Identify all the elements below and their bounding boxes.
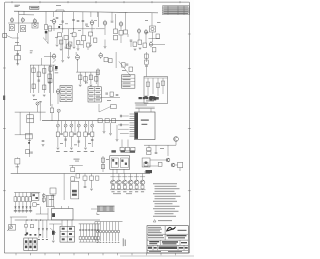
relay box row	[120, 147, 135, 151]
mains rail	[15, 219, 100, 221]
tube V5A	[144, 29, 147, 35]
label	[60, 142, 63, 145]
wire grid bus	[8, 22, 39, 24]
wire	[71, 220, 73, 226]
sheet background	[0, 0, 194, 259]
title row2 right cell	[164, 234, 166, 240]
resistor R37	[32, 84, 35, 89]
label	[78, 29, 81, 32]
wire	[125, 12, 127, 30]
label text	[39, 101, 42, 104]
label	[122, 69, 126, 72]
fuse dark dot	[26, 232, 28, 234]
wire	[175, 164, 178, 166]
title row2 left text	[148, 235, 164, 238]
wire Q1 collector	[112, 174, 114, 180]
wire	[72, 165, 74, 167]
emitter resistor RE5	[135, 186, 138, 189]
wire stage2 drop f	[97, 12, 99, 17]
label	[74, 144, 77, 147]
resistor R70	[178, 162, 183, 167]
wire	[79, 240, 81, 243]
potentiometer P5	[77, 124, 80, 127]
wire drop x30.5	[30, 65, 32, 93]
ground	[60, 49, 63, 51]
wire	[112, 233, 114, 242]
sheet note text top-left	[15, 4, 21, 7]
wire	[112, 188, 114, 191]
wire	[51, 104, 53, 108]
diode D12 dark	[52, 231, 55, 235]
resistor R11	[57, 33, 61, 37]
wire	[78, 127, 80, 132]
label	[85, 82, 88, 85]
resistor R19	[77, 41, 80, 45]
wire	[116, 169, 118, 173]
drawing number label box	[30, 6, 39, 9]
T2 dark mark	[52, 213, 55, 217]
fuse chain F1	[24, 225, 27, 228]
wire	[98, 12, 100, 27]
T1 right winding	[121, 158, 129, 168]
pin mark	[118, 241, 120, 244]
chart box 1 text	[61, 87, 71, 100]
resistor R43	[89, 75, 92, 80]
cap C9a	[56, 18, 59, 19]
wire stage2 drop a	[52, 12, 54, 17]
switch grid top bus	[14, 192, 40, 194]
diode D2	[18, 207, 20, 209]
bias diode LED3	[102, 230, 105, 233]
label	[28, 139, 31, 142]
U1 label text	[141, 120, 149, 125]
resistor R46	[109, 59, 113, 63]
label	[86, 25, 89, 28]
ground	[52, 241, 55, 243]
bias diode LED6	[111, 230, 114, 233]
wire cap2 lead	[82, 224, 84, 237]
cap C23	[78, 141, 81, 142]
ground	[67, 57, 70, 59]
U1 pin stubs	[130, 114, 135, 136]
small cluster right of switches	[33, 203, 36, 207]
module text	[123, 76, 131, 87]
page edge shadow bottom right	[120, 255, 194, 257]
cap C19	[145, 66, 148, 67]
tube V3B	[103, 20, 107, 26]
warning triangle note	[153, 220, 156, 222]
cap C23b	[74, 134, 77, 135]
resistor R62	[50, 108, 53, 113]
wire output feed	[144, 144, 176, 146]
resistor R63	[98, 119, 102, 123]
emitter resistor RE4	[129, 186, 132, 189]
wire	[106, 233, 108, 242]
wire	[65, 127, 67, 132]
vertical label text	[123, 238, 126, 246]
resistor R20	[114, 29, 118, 34]
resistor R42	[84, 77, 87, 82]
wire sw5	[29, 193, 31, 197]
title block inner bottom line	[147, 249, 188, 251]
wire pot6 stem	[91, 121, 93, 124]
wire	[60, 40, 62, 48]
wire	[112, 169, 114, 173]
label	[16, 166, 20, 169]
filter cap C34	[88, 230, 90, 231]
B+ supply rail top	[14, 10, 100, 13]
title block divider vertical top	[164, 226, 166, 235]
resistor R47	[122, 63, 126, 67]
cap C18	[116, 95, 119, 96]
wire V1 plate drop	[18, 11, 20, 33]
filter cap C37	[97, 230, 99, 231]
wire drop 80.2	[79, 72, 81, 84]
wire	[85, 137, 87, 147]
wire	[45, 33, 47, 40]
driver cluster boxes	[71, 168, 80, 182]
cap C17	[105, 93, 108, 94]
wire stage2 drop e	[90, 12, 92, 17]
wire	[130, 41, 132, 47]
mark	[37, 203, 40, 206]
wire	[47, 208, 49, 220]
wire Q2 collector	[118, 174, 120, 180]
impedance selector box	[142, 158, 150, 167]
revision table frame	[163, 6, 190, 15]
power entry dark marks	[25, 240, 36, 248]
wire ps drop 1	[38, 220, 40, 228]
emitter resistor RE3	[123, 186, 126, 189]
resistor R51	[145, 54, 149, 58]
switch contact box SW5	[29, 197, 32, 202]
diode D4	[26, 207, 28, 209]
wire	[87, 47, 89, 50]
title block divider h2	[147, 239, 188, 241]
cap C24b	[88, 134, 91, 135]
diode D1	[15, 207, 17, 209]
wire	[118, 188, 120, 191]
wire	[138, 33, 140, 40]
wire	[146, 67, 148, 77]
wire	[65, 40, 67, 47]
title block top-left text lines	[148, 227, 162, 233]
resistor R21	[119, 31, 123, 36]
power device Q2	[117, 180, 122, 185]
wire	[136, 188, 138, 191]
resistor R60	[84, 132, 87, 137]
wire	[14, 208, 16, 213]
cap C7	[82, 21, 85, 22]
resistor R71b	[101, 165, 104, 169]
ground	[104, 47, 107, 49]
ground	[103, 132, 106, 134]
wire	[70, 137, 72, 147]
wire into strip	[91, 208, 97, 210]
wire	[110, 123, 112, 133]
wire cap5 lead	[91, 224, 93, 237]
wire	[91, 174, 93, 177]
wire	[69, 164, 82, 166]
label	[157, 21, 161, 24]
LED chain	[43, 193, 45, 203]
power device Q1	[111, 180, 116, 185]
wire sw1	[14, 193, 16, 197]
tube V6A	[52, 53, 56, 59]
wire	[19, 112, 21, 135]
bias diode LED2	[99, 230, 102, 233]
bottom border zone ticks	[16, 253, 176, 255]
wire	[26, 202, 28, 207]
emitter resistor RE1	[112, 186, 115, 189]
main bus line mid	[42, 120, 135, 122]
resistor R55	[27, 119, 34, 123]
label text	[33, 98, 37, 101]
sub-circuit box inner top line	[144, 77, 168, 79]
extra stem b	[74, 121, 76, 133]
wire	[146, 52, 148, 62]
decouple box	[15, 56, 21, 60]
title block outer frame	[147, 226, 188, 253]
wire drop 85.5	[85, 72, 87, 84]
resistor R71a	[101, 158, 104, 162]
cap body C34	[88, 237, 90, 240]
wire Q3 collector	[124, 174, 126, 180]
power transformer box T2	[52, 209, 74, 220]
power device Q6	[140, 180, 145, 185]
wire	[17, 33, 19, 46]
resistor R19b	[87, 43, 90, 47]
wire	[115, 233, 117, 242]
wire	[77, 60, 79, 73]
speaker jacks	[144, 162, 148, 166]
cap C24	[91, 140, 94, 141]
notes text block	[153, 183, 181, 216]
output jack J2	[158, 162, 162, 166]
switch contact box SW2	[18, 197, 21, 202]
wire to V6A	[44, 55, 52, 57]
cap C27	[120, 124, 121, 127]
wire	[78, 137, 80, 147]
pin mark	[103, 241, 105, 244]
sub-circuit box outline	[144, 77, 168, 104]
signature date text	[178, 230, 187, 231]
tube V3A	[90, 20, 94, 26]
ground	[73, 47, 76, 49]
wire	[97, 68, 99, 87]
filter cap rail	[79, 223, 100, 225]
wire comb left leg	[94, 222, 96, 240]
potentiometer P4	[70, 124, 73, 127]
right border zone marks	[188, 34, 191, 191]
wire	[104, 25, 106, 35]
wire	[85, 127, 87, 132]
resistor R35	[43, 69, 46, 74]
wire	[73, 17, 75, 32]
tube V4A	[119, 21, 123, 27]
bias diode LED7	[114, 230, 117, 233]
filter cap C33	[85, 230, 87, 231]
wire Q6 collector	[142, 174, 144, 180]
resistor R68	[147, 152, 151, 155]
wire	[56, 37, 58, 44]
ground	[42, 145, 45, 147]
long bus line 2	[11, 173, 150, 175]
pot labels row	[56, 150, 94, 153]
wire	[103, 233, 105, 242]
wire	[42, 230, 44, 238]
ground	[79, 85, 82, 87]
resistor R61	[91, 132, 94, 137]
pin mark	[109, 241, 111, 244]
tube V2B	[52, 18, 56, 24]
wire drop x33.5	[33, 65, 35, 93]
bias diode LED4	[105, 230, 108, 233]
cap C20	[42, 141, 45, 142]
AC inlet jack	[9, 225, 16, 231]
wire bias1	[97, 222, 99, 231]
labels row small boxes	[111, 150, 135, 153]
wire	[104, 40, 106, 47]
corner mark	[97, 213, 100, 215]
tube pinout chart box 1	[60, 86, 72, 102]
resistor R72	[42, 198, 45, 201]
label	[49, 198, 54, 201]
wire bias3	[103, 222, 105, 231]
selector dark center	[145, 162, 147, 164]
label	[160, 147, 164, 150]
label	[107, 99, 111, 102]
cap body C37	[97, 237, 99, 240]
mark	[38, 239, 40, 240]
wire to ps	[36, 213, 48, 215]
resistor R14	[82, 36, 86, 41]
cap C28	[155, 153, 158, 154]
wire	[29, 208, 31, 213]
cap body C31	[79, 237, 81, 240]
ground	[116, 140, 119, 142]
tube V4B	[137, 28, 140, 34]
title bottom band cells	[153, 245, 184, 250]
wire	[75, 52, 77, 55]
wire input lead	[7, 36, 12, 39]
wire	[179, 168, 181, 171]
cap C16	[126, 64, 129, 65]
wire	[18, 208, 20, 213]
pin mark	[97, 241, 99, 244]
bias diode LED8	[117, 230, 120, 233]
wire	[98, 104, 100, 112]
label text	[15, 41, 19, 44]
wire	[17, 60, 19, 64]
pin mark	[106, 241, 108, 244]
wire cap4 lead	[88, 224, 90, 237]
tube V2A	[33, 18, 36, 24]
switch contact box SW4	[25, 197, 28, 202]
wires above U1	[135, 107, 154, 112]
wire	[116, 125, 118, 139]
resistor R19c	[67, 44, 70, 49]
sub box dense bottom	[145, 96, 159, 100]
border frame bottom line	[4, 252, 189, 254]
chart box 2 text	[89, 88, 100, 100]
wire	[144, 171, 150, 173]
wire drop 96.2	[95, 72, 97, 84]
title block bottom row text	[149, 250, 161, 253]
wire pot1 stem	[57, 121, 59, 124]
ground	[84, 148, 87, 150]
wire	[118, 233, 120, 242]
wire short rail	[96, 28, 105, 30]
wire feeds to IC	[97, 116, 129, 134]
ground	[89, 45, 92, 47]
wire mid bus	[30, 64, 56, 66]
wire	[144, 165, 158, 167]
wire Q4 collector	[130, 174, 132, 180]
driver tall box	[71, 182, 79, 199]
bias comb rail	[95, 221, 123, 223]
wire	[69, 46, 71, 50]
label	[59, 23, 62, 26]
wire cathode drop	[17, 51, 19, 65]
wire	[123, 169, 125, 173]
relay K1 box	[32, 193, 39, 200]
cap C13	[48, 82, 51, 83]
wire AC top link	[10, 216, 27, 218]
tone cap network box	[26, 134, 33, 139]
emitter resistor RE2	[117, 186, 120, 189]
wire	[155, 145, 157, 152]
resistor R10	[49, 26, 52, 31]
wire	[66, 220, 68, 226]
wire	[111, 12, 113, 20]
cap C5	[61, 21, 64, 22]
row label	[113, 192, 121, 195]
resistor R44	[95, 77, 98, 82]
binder mark on left border	[3, 96, 5, 101]
switch contact box SW3	[22, 197, 25, 202]
wire	[130, 188, 132, 191]
cluster near bus2	[26, 150, 30, 154]
resistor R18	[69, 42, 72, 46]
wire	[47, 31, 49, 44]
wire	[70, 127, 72, 132]
wire pot3 stem	[70, 121, 72, 124]
resistor R33	[32, 68, 35, 73]
warning text	[158, 219, 172, 222]
wire	[14, 202, 16, 207]
wire	[115, 14, 117, 29]
potentiometer P7	[91, 124, 94, 127]
standby switch chain	[15, 159, 20, 165]
ground	[57, 148, 60, 150]
left chain near transformer	[102, 156, 104, 172]
ground	[43, 95, 46, 97]
wire heater rail	[19, 14, 34, 16]
wire	[57, 137, 59, 147]
indicator LED1	[42, 194, 45, 197]
resistor R67	[147, 148, 151, 151]
plate load chain R4	[45, 25, 48, 30]
label	[94, 19, 97, 22]
resistor R22	[124, 30, 128, 34]
wire	[142, 188, 144, 191]
T1 left winding	[111, 158, 118, 168]
wire	[40, 207, 42, 215]
wire	[149, 38, 161, 40]
ground	[61, 61, 64, 63]
mark	[46, 239, 48, 240]
